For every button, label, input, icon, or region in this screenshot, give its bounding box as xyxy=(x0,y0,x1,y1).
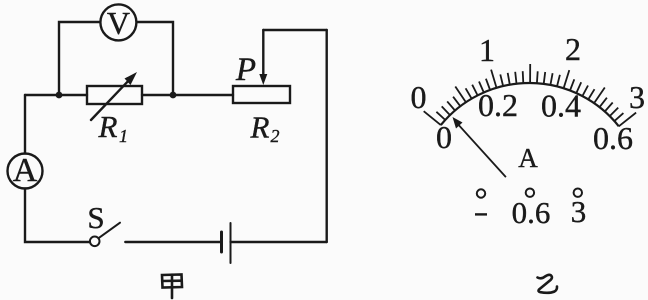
wire: main horizontal, left node to R1 xyxy=(25,94,87,96)
wire: switch to battery xyxy=(125,241,221,243)
label 乙 (diagram yi) xyxy=(538,275,558,293)
wire: battery to right rail xyxy=(231,241,327,243)
meter needle arrowhead xyxy=(453,117,463,129)
resistor R1 arrowhead xyxy=(125,72,138,85)
svg-text:1: 1 xyxy=(479,32,495,68)
svg-text:V: V xyxy=(107,5,130,41)
wire: top-right V branch (voltmeter to node) xyxy=(137,22,173,95)
svg-text:0: 0 xyxy=(411,79,427,115)
svg-text:R: R xyxy=(98,109,118,144)
terminal minus circle xyxy=(477,189,485,197)
wire: ammeter to bottom rail xyxy=(25,189,90,243)
svg-text:2: 2 xyxy=(271,126,280,146)
svg-text:0.6: 0.6 xyxy=(593,120,633,156)
switch S lever xyxy=(99,223,121,239)
battery positive plate xyxy=(230,223,232,263)
svg-text:0.2: 0.2 xyxy=(478,87,518,123)
node junction right xyxy=(170,92,177,99)
voltmeter V1 circle xyxy=(100,4,136,40)
svg-text:P: P xyxy=(235,52,256,88)
rheostat R2 body xyxy=(233,86,290,103)
label 甲 (diagram jia) xyxy=(162,275,182,299)
wire: slider top to right rail xyxy=(263,29,326,31)
svg-text:0: 0 xyxy=(436,119,452,155)
wire: right rail down to battery xyxy=(326,30,328,242)
meter needle xyxy=(456,122,506,178)
terminal label minus xyxy=(475,213,487,215)
svg-text:2: 2 xyxy=(565,31,581,67)
rheostat R2 slider wire xyxy=(262,30,264,78)
meter scale arc xyxy=(441,83,619,126)
svg-text:3: 3 xyxy=(629,79,645,115)
meter scale ticks xyxy=(424,64,636,126)
resistor R1 body xyxy=(87,86,142,104)
resistor R1 variable arrow xyxy=(91,77,132,120)
node junction left xyxy=(56,92,63,99)
wire: R1 to R2 xyxy=(142,94,233,96)
wire: top-left V branch (node to voltmeter) xyxy=(59,22,100,95)
wire: left rail node down to ammeter xyxy=(24,95,26,154)
battery negative plate xyxy=(220,232,223,252)
svg-text:3: 3 xyxy=(571,194,587,229)
svg-text:R: R xyxy=(250,110,270,145)
terminal 3 circle xyxy=(574,189,582,197)
svg-text:A: A xyxy=(13,152,38,189)
svg-text:A: A xyxy=(518,143,538,173)
svg-text:1: 1 xyxy=(119,126,128,146)
rheostat R2 slider arrowhead xyxy=(259,74,267,85)
svg-text:0.4: 0.4 xyxy=(541,88,581,124)
switch S contact circle xyxy=(90,237,100,247)
svg-text:S: S xyxy=(87,200,104,235)
terminal 0.6 circle xyxy=(526,189,534,197)
ammeter A1 circle xyxy=(8,154,43,189)
svg-text:0.6: 0.6 xyxy=(512,195,551,230)
